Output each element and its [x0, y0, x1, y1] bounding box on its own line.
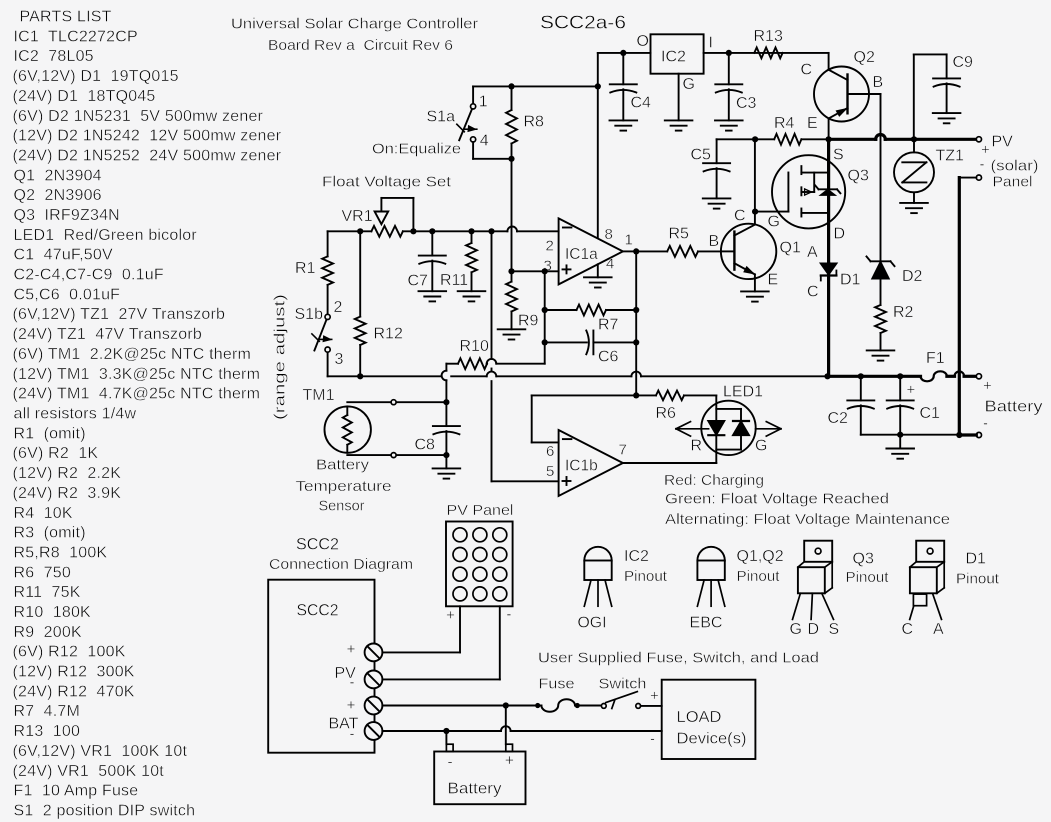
svg-text:IC2: IC2 — [624, 548, 649, 565]
label R1 — [295, 260, 316, 277]
wire Q1 emitter — [754, 274, 756, 291]
label Float Voltage Set — [322, 174, 452, 191]
label Q1 B — [709, 233, 720, 250]
svg-text:(24V) R12 470K: (24V) R12 470K — [13, 683, 135, 700]
svg-text:R5,R8 100K: R5,R8 100K — [14, 545, 108, 562]
resistor R8 — [506, 86, 517, 158]
svg-text:Board Rev a Circuit Rev 6: Board Rev a Circuit Rev 6 — [268, 37, 453, 54]
label F1 — [926, 350, 945, 367]
node BAT- corner — [956, 432, 962, 438]
label load plus — [650, 687, 659, 704]
label EBC — [690, 615, 723, 632]
svg-text:all resistors 1/4w: all resistors 1/4w — [14, 406, 137, 423]
label R12 — [374, 326, 403, 343]
capacitor C5 — [703, 139, 730, 198]
label Q1 — [780, 240, 801, 257]
label BAT minus — [983, 415, 988, 432]
wire R13 to Q2 — [828, 53, 830, 70]
node C6 left — [542, 339, 548, 345]
regulator IC2 — [651, 34, 704, 73]
label C2 — [828, 410, 849, 427]
label IC1a pin 4 — [606, 255, 614, 272]
label IC2 G pin — [683, 76, 695, 93]
svg-text:+: + — [650, 687, 659, 704]
svg-text:C4: C4 — [631, 95, 652, 112]
svg-text:(24V) VR1 500K 10t: (24V) VR1 500K 10t — [13, 763, 165, 780]
svg-text:C7: C7 — [408, 273, 429, 290]
svg-text:Battery: Battery — [316, 456, 370, 473]
svg-text:-: - — [350, 674, 355, 691]
label LED G — [755, 438, 767, 455]
wire out riser — [635, 251, 637, 395]
label C9 — [953, 54, 974, 71]
label Switch — [599, 676, 647, 693]
svg-text:R11: R11 — [440, 272, 468, 289]
label panel plus — [446, 607, 455, 624]
svg-text:C: C — [801, 62, 813, 79]
label PV- t — [350, 674, 355, 691]
svg-text:R13 100: R13 100 — [14, 723, 81, 740]
node pin3 R8 — [508, 268, 514, 274]
node TZ1 — [911, 136, 917, 142]
resistor R11 — [466, 231, 477, 291]
wire battery bus — [328, 372, 828, 377]
transzorb TZ1 — [894, 139, 934, 203]
label Devices — [677, 731, 747, 748]
svg-text:C9: C9 — [953, 54, 974, 71]
svg-text:+: + — [446, 607, 455, 624]
wire Q2 base down — [880, 94, 882, 261]
capacitor C3 — [715, 53, 742, 121]
label Q3 G — [768, 213, 780, 230]
label GDS — [790, 621, 840, 638]
svg-text:C: C — [807, 284, 819, 301]
transistor Q3 — [772, 155, 845, 228]
svg-text:PARTS LIST: PARTS LIST — [20, 9, 112, 26]
label Connection Diagram — [269, 556, 413, 573]
label Battery box — [448, 781, 502, 798]
label IC1b pin 7 — [619, 442, 627, 459]
svg-text:2: 2 — [546, 238, 554, 255]
svg-text:3: 3 — [335, 351, 344, 368]
svg-text:Universal Solar Charge Control: Universal Solar Charge Controller — [231, 16, 478, 33]
node rail-tee — [595, 83, 601, 89]
label load minus — [650, 731, 655, 748]
fuse user — [541, 699, 575, 711]
svg-text:G: G — [683, 76, 695, 93]
label BAT t — [329, 716, 359, 733]
svg-text:R10 180K: R10 180K — [14, 604, 92, 621]
label R11 — [440, 272, 468, 289]
svg-text:R8: R8 — [524, 113, 545, 130]
label Q3 S — [833, 147, 844, 164]
node D1 bus — [824, 373, 830, 379]
title SCC2a-6 — [540, 13, 626, 33]
svg-text:R7: R7 — [598, 317, 619, 334]
wire IC2 output rail — [704, 52, 829, 54]
label Q3 D — [834, 225, 846, 242]
node PV rail Q2 — [826, 136, 832, 142]
label BAT+ t — [347, 697, 356, 714]
svg-text:C2: C2 — [828, 410, 849, 427]
svg-text:Alternating: Float Voltage Mai: Alternating: Float Voltage Maintenance — [665, 511, 950, 528]
label Battery sensor 1 — [316, 456, 370, 473]
svg-text:Green: Float Voltage Reached: Green: Float Voltage Reached — [665, 491, 889, 508]
label LOAD — [677, 709, 722, 726]
label TZ1 — [936, 147, 965, 164]
svg-text:Float Voltage Set: Float Voltage Set — [322, 174, 452, 191]
label Panel — [993, 174, 1033, 191]
label C6 — [598, 349, 619, 366]
node C8 bottom — [443, 452, 449, 458]
node Q1 collector rail — [752, 136, 758, 142]
ground IC2 G — [665, 74, 693, 131]
svg-text:C2-C4,C7-C9 0.1uF: C2-C4,C7-C9 0.1uF — [14, 267, 164, 284]
svg-text:4: 4 — [606, 255, 614, 272]
label Alternating — [665, 511, 950, 528]
resistor R12 — [355, 231, 366, 376]
wire TM1 riser — [442, 364, 447, 403]
title line 2 — [268, 37, 453, 54]
svg-text:6: 6 — [546, 443, 554, 460]
svg-text:8: 8 — [605, 226, 613, 243]
resistor R10 — [458, 358, 487, 369]
label Q1 E — [768, 272, 779, 289]
node rail-R8 — [508, 83, 514, 89]
label C1 plus — [907, 382, 916, 399]
svg-text:EBC: EBC — [690, 615, 723, 632]
svg-text:Battery: Battery — [985, 399, 1043, 416]
label Green Float — [665, 491, 889, 508]
svg-text:F1 10 Amp Fuse: F1 10 Amp Fuse — [14, 783, 139, 800]
label D1 C — [807, 284, 819, 301]
label D1 A — [807, 244, 818, 261]
wire PV- stub — [959, 177, 976, 179]
capacitor C6 — [545, 331, 637, 355]
node fuse left — [535, 703, 540, 708]
label Q2 B — [873, 74, 884, 91]
capacitor C9 — [914, 54, 960, 139]
svg-text:2: 2 — [334, 299, 343, 316]
label Q2 E — [807, 115, 818, 132]
label user supplied — [538, 650, 819, 667]
node R6 branch — [633, 392, 639, 398]
svg-text:-: - — [983, 415, 988, 432]
node pin5 riser top — [488, 228, 494, 234]
diode D1 — [821, 264, 837, 377]
svg-text:+: + — [907, 382, 916, 399]
wire R10 line — [446, 359, 544, 364]
svg-text:C: C — [734, 208, 746, 225]
svg-text:User Supplied Fuse, Switch, an: User Supplied Fuse, Switch, and Load — [538, 650, 819, 667]
svg-text:R4 10K: R4 10K — [14, 505, 73, 522]
svg-text:S: S — [833, 147, 844, 164]
svg-text:-: - — [980, 156, 985, 173]
node battery+ stem — [503, 702, 509, 708]
label Q3 pinout — [846, 551, 890, 587]
label TM1 — [303, 387, 335, 404]
wire top rail — [473, 85, 598, 87]
svg-text:SCC2: SCC2 — [296, 535, 339, 554]
label R4 — [774, 115, 795, 132]
transistor Q2 — [814, 67, 881, 122]
node R12 top — [357, 228, 363, 234]
label panel minus — [506, 606, 511, 623]
label CA — [902, 621, 945, 638]
box LOAD — [662, 680, 756, 759]
label PV — [992, 133, 1014, 150]
node R7 right — [633, 307, 639, 313]
svg-text:R13: R13 — [754, 28, 783, 45]
node C7 top — [429, 228, 435, 234]
svg-text:R6: R6 — [656, 405, 677, 422]
svg-text:E: E — [807, 115, 818, 132]
svg-text:Sensor: Sensor — [319, 498, 365, 515]
wire IC1b out — [623, 462, 716, 464]
svg-text:Pinout: Pinout — [956, 570, 1000, 587]
svg-text:IC1b: IC1b — [565, 457, 598, 474]
capacitor C7 — [419, 231, 446, 291]
svg-text:S1a: S1a — [427, 108, 456, 125]
node R12 bottom — [357, 373, 363, 379]
capacitor C4 — [610, 53, 637, 121]
svg-text:O: O — [637, 33, 649, 50]
svg-text:IC2: IC2 — [661, 49, 686, 66]
ground C9 — [933, 113, 961, 123]
wire Q2 emitter — [828, 119, 830, 140]
wire IC1b feedback — [532, 395, 637, 442]
svg-text:TM1: TM1 — [303, 387, 335, 404]
wire switch to load — [641, 705, 662, 707]
label R5 — [669, 226, 690, 243]
svg-text:(12V) D2 1N5242 12V 500mw zen: (12V) D2 1N5242 12V 500mw zener — [13, 128, 282, 145]
label C3 — [736, 95, 757, 112]
label Battery sensor 2 — [296, 478, 392, 495]
svg-text:SCC2: SCC2 — [297, 600, 339, 619]
label R2 — [893, 304, 914, 321]
label SCC2 inside — [297, 600, 339, 619]
svg-text:+: + — [347, 697, 356, 714]
svg-text:Connection Diagram: Connection Diagram — [269, 556, 413, 573]
svg-text:Battery: Battery — [448, 781, 502, 798]
svg-text:Red: Charging: Red: Charging — [664, 472, 764, 489]
resistor R6 — [636, 391, 716, 401]
wire pin5 riser — [492, 231, 559, 481]
ground C5 — [703, 198, 731, 208]
terminal PV+ — [976, 137, 981, 142]
svg-text:Panel: Panel — [993, 174, 1033, 191]
package D1 pinout — [910, 541, 945, 620]
wire R8 to pin3 — [511, 159, 513, 271]
svg-text:D1: D1 — [966, 551, 987, 568]
svg-text:R1: R1 — [295, 260, 316, 277]
svg-text:Fuse: Fuse — [539, 676, 575, 693]
svg-text:-: - — [506, 606, 511, 623]
wire pin8 riser — [598, 53, 651, 238]
svg-text:4: 4 — [480, 132, 489, 149]
capacitor C2 — [847, 376, 900, 434]
svg-text:LED1: LED1 — [723, 383, 763, 400]
label IC1b pin 6 — [546, 443, 554, 460]
svg-text:1: 1 — [479, 94, 488, 111]
resistor R1 — [322, 231, 333, 314]
wire BAT+ run — [382, 705, 541, 707]
svg-text:D1: D1 — [840, 272, 861, 289]
wire PV- to BAT- — [959, 178, 976, 435]
svg-text:R5: R5 — [669, 226, 690, 243]
label D1 — [840, 272, 861, 289]
wire panel- — [382, 606, 499, 679]
label IC2 I pin — [709, 35, 713, 52]
label C1 — [920, 405, 941, 422]
diode D2 — [867, 257, 895, 279]
svg-text:Q3 IRF9Z34N: Q3 IRF9Z34N — [14, 207, 120, 224]
label VR1 — [342, 208, 373, 225]
resistor R13 — [754, 48, 782, 59]
svg-text:R6 750: R6 750 — [14, 564, 71, 581]
terminal BAT+ — [976, 374, 981, 379]
svg-text:R9 200K: R9 200K — [14, 624, 82, 641]
svg-text:F1: F1 — [926, 350, 945, 367]
svg-text:-: - — [447, 754, 452, 771]
wire panel+ — [382, 606, 460, 652]
label Q1Q2 pinout — [737, 548, 784, 585]
op-amp IC1b — [559, 430, 623, 496]
label IC1a pin 3 — [544, 257, 552, 274]
node C1 top — [897, 373, 903, 379]
label D2 — [902, 268, 923, 285]
terminal PV- — [976, 175, 981, 180]
node pin3 branch — [542, 268, 548, 274]
label PV+ t — [347, 641, 356, 658]
wire C1 gnd link — [900, 434, 959, 436]
label C5 — [691, 147, 712, 164]
ground C4 — [610, 120, 638, 130]
ground R2 — [867, 350, 895, 360]
resistor R2 — [875, 279, 886, 351]
svg-text:R3 (omit): R3 (omit) — [14, 525, 86, 542]
svg-text:C3: C3 — [736, 95, 757, 112]
svg-text:B: B — [709, 233, 720, 250]
label BAT plus — [983, 378, 992, 395]
capacitor C1 — [887, 376, 914, 434]
label S1b pin 3 — [335, 351, 344, 368]
label LED1 — [723, 383, 763, 400]
label IC1b pin 5 — [546, 463, 554, 480]
svg-text:Q1: Q1 — [780, 240, 801, 257]
svg-text:R7 4.7M: R7 4.7M — [14, 703, 81, 720]
svg-text:R4: R4 — [774, 115, 795, 132]
svg-text:(6V) TM1 2.2K@25c NTC therm: (6V) TM1 2.2K@25c NTC therm — [13, 346, 252, 363]
label D1 pinout — [956, 551, 1000, 588]
svg-text:-: - — [650, 731, 655, 748]
svg-text:R12: R12 — [374, 326, 403, 343]
svg-text:R1 (omit): R1 (omit) — [14, 425, 86, 442]
svg-text:VR1: VR1 — [342, 208, 373, 225]
node fuse right — [575, 703, 580, 708]
svg-text:C6: C6 — [598, 349, 619, 366]
label R9 — [518, 313, 539, 330]
node C2 top — [858, 373, 864, 379]
svg-text:+: + — [347, 641, 356, 658]
svg-text:(12V) TM1 3.3K@25c NTC therm: (12V) TM1 3.3K@25c NTC therm — [13, 366, 261, 383]
svg-text:PV Panel: PV Panel — [447, 502, 514, 519]
ground IC1a pin4 — [584, 264, 612, 287]
ground C1 — [886, 435, 914, 459]
svg-text:C: C — [902, 621, 914, 638]
parts list — [13, 9, 282, 820]
label LED R — [691, 438, 703, 455]
resistor R5 — [667, 246, 698, 257]
label IC2 O pin — [637, 33, 649, 50]
solar panel — [446, 522, 513, 607]
svg-text:R2: R2 — [893, 304, 914, 321]
svg-text:R10: R10 — [460, 338, 489, 355]
svg-text:C5,C6 0.01uF: C5,C6 0.01uF — [14, 286, 121, 303]
label SCC2 title — [296, 535, 339, 554]
wire Q3 source heavy — [827, 139, 830, 263]
ground C3 — [715, 120, 743, 130]
label R8 — [524, 113, 545, 130]
label R7 — [598, 317, 619, 334]
resistor R7 — [545, 305, 637, 316]
svg-text:A: A — [807, 244, 818, 261]
label Battery sensor 3 — [319, 498, 365, 515]
svg-text:Device(s): Device(s) — [677, 731, 747, 748]
svg-text:C1: C1 — [920, 405, 941, 422]
node R7 left — [542, 307, 548, 313]
label R10 — [460, 338, 489, 355]
svg-text:IC1a: IC1a — [565, 246, 598, 263]
svg-text:Q1,Q2: Q1,Q2 — [737, 548, 784, 565]
svg-text:LED1 Red/Green bicolor: LED1 Red/Green bicolor — [14, 227, 198, 244]
svg-text:R: R — [691, 438, 703, 455]
node gate branch — [752, 209, 758, 215]
ground C7 — [419, 291, 447, 301]
label C4 — [631, 95, 652, 112]
fuse F1 — [921, 371, 947, 381]
svg-text:G: G — [755, 438, 767, 455]
ground R9 — [498, 329, 526, 339]
wire F1 to battery+ — [947, 372, 976, 377]
capacitor C8 — [433, 402, 460, 468]
wire VR1 bus — [328, 227, 559, 232]
svg-text:R9: R9 — [518, 313, 539, 330]
battery box — [434, 744, 525, 804]
wire battery- stem — [445, 731, 447, 744]
wire R5 line — [636, 250, 721, 252]
svg-text:D: D — [834, 225, 846, 242]
svg-text:Pinout: Pinout — [846, 569, 890, 586]
svg-text:Pinout: Pinout — [737, 568, 781, 585]
node C6 right — [633, 339, 639, 345]
label battery minus — [447, 754, 452, 771]
wire pin3 riser — [544, 271, 546, 363]
svg-text:(24V) TM1 4.7K@25c NTC therm: (24V) TM1 4.7K@25c NTC therm — [13, 386, 261, 403]
label Q3 — [848, 167, 869, 184]
wire battery rail heavy — [828, 375, 921, 378]
label On:Equalize — [372, 140, 461, 157]
package Q3 pinout — [793, 541, 834, 620]
svg-text:C1 47uF,50V: C1 47uF,50V — [14, 247, 113, 264]
node battery- stem — [443, 728, 449, 734]
ground C8 — [433, 468, 461, 478]
svg-text:(24V) TZ1 47V Transzorb: (24V) TZ1 47V Transzorb — [13, 326, 202, 343]
switch S1a — [457, 86, 512, 158]
svg-text:7: 7 — [619, 442, 627, 459]
switch user — [601, 692, 640, 709]
svg-text:S1b: S1b — [295, 306, 324, 323]
